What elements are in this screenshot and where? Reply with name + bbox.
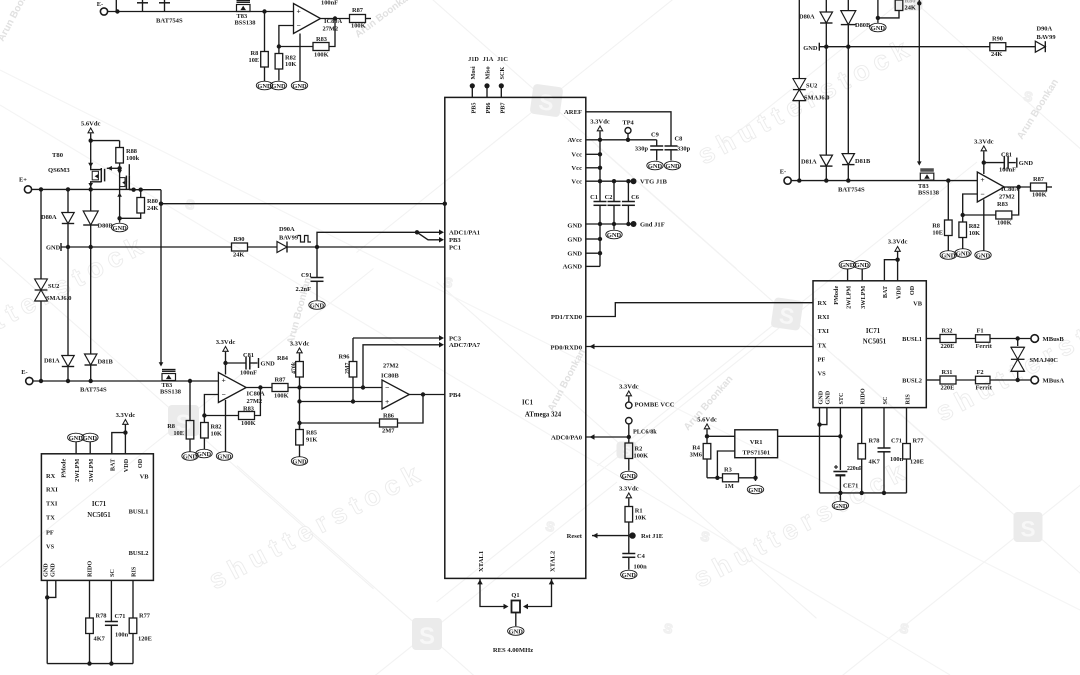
wire BUSL2 bbox=[926, 379, 940, 381]
svg-text:D80A: D80A bbox=[41, 214, 57, 221]
resistor R87 100K (top) bbox=[350, 7, 372, 30]
svg-text:GND: GND bbox=[665, 163, 680, 170]
wire sense rail GND to R90 bbox=[61, 245, 232, 249]
svg-text:D90A: D90A bbox=[1037, 26, 1053, 33]
svg-text:PMode: PMode bbox=[60, 459, 67, 478]
op-amp IC80A bbox=[218, 373, 246, 403]
svg-text:220E: 220E bbox=[941, 385, 955, 392]
svg-text:TXI: TXI bbox=[46, 501, 58, 508]
svg-text:STC: STC bbox=[838, 392, 845, 404]
svg-text:R8: R8 bbox=[251, 50, 259, 57]
pin label GND bottom (right NC5051) bbox=[817, 390, 824, 404]
svg-text:BAT754S: BAT754S bbox=[80, 387, 107, 394]
svg-text:TX: TX bbox=[46, 515, 55, 522]
node junction 5.6V to R88 bbox=[89, 138, 120, 142]
power 3.3Vdc for R84 bbox=[290, 341, 310, 362]
svg-text:T80: T80 bbox=[52, 152, 64, 159]
svg-text:Miso: Miso bbox=[485, 66, 492, 79]
wire RIDO drop bbox=[861, 408, 863, 444]
tvs SMAJ40C bbox=[1011, 339, 1058, 381]
wire feedback to VR1 bbox=[717, 451, 734, 478]
svg-text:GND: GND bbox=[42, 563, 49, 577]
svg-text:R32: R32 bbox=[942, 328, 953, 335]
wire ADC0/PA0 bbox=[586, 434, 631, 440]
svg-text:GND: GND bbox=[956, 250, 971, 257]
svg-text:IC80A: IC80A bbox=[324, 18, 342, 25]
wire inverting net (right) bbox=[961, 194, 996, 217]
svg-text:GND: GND bbox=[261, 361, 276, 368]
svg-text:AREF: AREF bbox=[564, 109, 582, 116]
svg-text:GND: GND bbox=[83, 435, 98, 442]
pin label Reset y=535.6 bbox=[567, 533, 583, 540]
capacitor CE71 220uF bbox=[833, 436, 863, 493]
svg-text:PB7: PB7 bbox=[499, 103, 506, 114]
svg-text:BAV99: BAV99 bbox=[1037, 34, 1056, 41]
svg-text:5.6Vdc: 5.6Vdc bbox=[81, 121, 101, 128]
ground under C9 bbox=[647, 161, 663, 170]
svg-text:BSS138: BSS138 bbox=[160, 389, 181, 396]
wire BAT bracket (right NC5051) bbox=[884, 260, 897, 281]
resistor R80 24K (right, cropped) bbox=[895, 0, 916, 12]
svg-text:VB: VB bbox=[913, 301, 923, 308]
connector POMBE VCC bbox=[626, 402, 675, 409]
svg-text:330p: 330p bbox=[635, 146, 649, 153]
diode D80A bbox=[41, 189, 74, 247]
wire T80b source to rail bbox=[129, 188, 161, 192]
svg-text:E-: E- bbox=[21, 369, 27, 376]
connector VTG J1B bbox=[631, 178, 668, 186]
diode D81A (cropped, cathode bar) bbox=[137, 0, 148, 12]
diode D80B bbox=[83, 189, 113, 247]
label 27M2 IC80B bbox=[381, 363, 399, 380]
svg-text:F2: F2 bbox=[977, 369, 984, 376]
diode D81B (right) bbox=[842, 47, 871, 181]
diode D81B (cropped, cathode bar) bbox=[159, 0, 170, 12]
svg-text:D81A: D81A bbox=[801, 159, 817, 166]
ground under R8 (right) bbox=[940, 251, 956, 260]
svg-text:C81: C81 bbox=[1001, 152, 1012, 159]
pin label PD0/RXD0 y=347 bbox=[550, 344, 582, 351]
svg-text:3.3Vdc: 3.3Vdc bbox=[590, 119, 610, 126]
svg-text:ADC1/PA1: ADC1/PA1 bbox=[449, 230, 480, 237]
pin label GND bottom (right NC5051) bbox=[825, 390, 832, 404]
svg-text:F1: F1 bbox=[977, 328, 984, 335]
svg-text:R87: R87 bbox=[352, 7, 364, 14]
svg-text:VS: VS bbox=[818, 371, 827, 378]
svg-text:100K: 100K bbox=[241, 420, 256, 427]
pin label GND bottom (left NC5051) bbox=[50, 563, 57, 577]
ground under R82 bbox=[196, 449, 212, 458]
svg-text:GND: GND bbox=[292, 458, 307, 465]
wire bottom rail (right NC5051) bbox=[820, 491, 907, 495]
pin label AGND y=266.4 bbox=[563, 264, 583, 271]
resistor R77 120E (right) bbox=[903, 438, 925, 493]
wire R83 to output bbox=[255, 385, 263, 415]
svg-text:OD: OD bbox=[909, 285, 916, 295]
svg-text:10E: 10E bbox=[173, 430, 184, 437]
svg-text:R31: R31 bbox=[942, 369, 953, 376]
wire BUSL1 bbox=[926, 338, 940, 340]
svg-text:QS6M3: QS6M3 bbox=[48, 167, 70, 174]
wire STC drop bbox=[839, 408, 841, 437]
label IC80A 27M2 R83 bbox=[243, 391, 265, 413]
svg-text:220E: 220E bbox=[941, 343, 955, 350]
ground under R8 (top) bbox=[256, 81, 272, 90]
svg-text:PD1/TXD0: PD1/TXD0 bbox=[551, 314, 583, 321]
svg-text:RES 4.00MHz: RES 4.00MHz bbox=[493, 647, 533, 654]
svg-text:SU2: SU2 bbox=[806, 83, 817, 90]
ground under R85 bbox=[291, 457, 307, 466]
svg-text:24K: 24K bbox=[905, 5, 916, 12]
pin label VB (left NC5051) bbox=[140, 474, 150, 481]
wire AVcc pin bbox=[586, 138, 657, 142]
resistor R82 10K bbox=[201, 416, 222, 450]
svg-text:VS: VS bbox=[46, 544, 55, 551]
pin label PC1 left y=247 bbox=[449, 244, 461, 251]
wire junction up to PA1/PB3 bracket bbox=[317, 230, 419, 247]
svg-text:100nF: 100nF bbox=[240, 370, 257, 377]
power 5.6Vdc (VR1) bbox=[697, 417, 717, 444]
svg-text:10K: 10K bbox=[285, 61, 296, 68]
terminal E- (top-left input) bbox=[97, 1, 108, 15]
svg-text:R78: R78 bbox=[869, 438, 880, 445]
label IC80A 27M2 R83 (right) bbox=[997, 186, 1019, 208]
svg-text:BUSL2: BUSL2 bbox=[129, 550, 149, 557]
svg-text:3.3Vdc: 3.3Vdc bbox=[216, 339, 236, 346]
power 3.3Vdc IC80A (right) bbox=[974, 139, 994, 175]
svg-text:BAT754S: BAT754S bbox=[156, 18, 183, 25]
node junction R84/R87 bbox=[297, 385, 301, 389]
svg-text:C91: C91 bbox=[301, 272, 312, 279]
svg-text:27M2: 27M2 bbox=[999, 194, 1015, 201]
svg-text:IC1: IC1 bbox=[522, 400, 534, 407]
svg-text:GND: GND bbox=[622, 572, 637, 579]
svg-text:10E: 10E bbox=[249, 57, 260, 64]
svg-text:PC1: PC1 bbox=[449, 244, 461, 251]
svg-text:+: + bbox=[385, 397, 389, 406]
transistor T83 (top, BSS138) bbox=[235, 1, 256, 27]
svg-text:100k: 100k bbox=[126, 155, 140, 162]
svg-text:SMAJ40C: SMAJ40C bbox=[1030, 357, 1059, 364]
op-amp V- ground (right) bbox=[983, 200, 985, 251]
svg-text:10K: 10K bbox=[969, 230, 980, 237]
op-amp V- to ground (top) bbox=[299, 34, 301, 82]
svg-text:E-: E- bbox=[97, 1, 103, 8]
svg-text:J1C: J1C bbox=[497, 56, 508, 63]
pin PB7 SCK J1C bbox=[497, 56, 508, 114]
svg-text:SC: SC bbox=[882, 397, 889, 405]
ground under R80/T80b bbox=[111, 223, 127, 232]
svg-text:100K: 100K bbox=[1032, 192, 1047, 199]
svg-text:GND: GND bbox=[257, 83, 272, 90]
svg-text:−: − bbox=[221, 390, 225, 399]
svg-text:GND: GND bbox=[183, 453, 198, 460]
wire E+ rail bbox=[32, 187, 131, 191]
svg-text:RXI: RXI bbox=[46, 487, 58, 494]
pin label XTAL1 bbox=[478, 551, 485, 572]
svg-text:GND: GND bbox=[217, 453, 232, 460]
svg-text:C81: C81 bbox=[243, 352, 254, 359]
svg-text:GND: GND bbox=[310, 302, 325, 309]
capacitor C71 100n (left) bbox=[105, 580, 129, 663]
svg-text:BUSL1: BUSL1 bbox=[902, 336, 922, 343]
svg-text:BSS138: BSS138 bbox=[918, 190, 939, 197]
svg-text:D81B: D81B bbox=[98, 359, 114, 366]
svg-text:RX: RX bbox=[818, 300, 828, 307]
wire long vertical to T83 drain bbox=[159, 190, 164, 367]
svg-text:VR1: VR1 bbox=[750, 439, 763, 446]
ground under Q1 bbox=[508, 613, 524, 636]
terminal MBusB bbox=[1031, 335, 1064, 343]
svg-text:PB3: PB3 bbox=[449, 237, 461, 244]
transistor T83 BSS138 (right) bbox=[918, 169, 939, 196]
svg-text:2WLPM: 2WLPM bbox=[74, 459, 81, 482]
svg-text:Vcc: Vcc bbox=[571, 152, 582, 159]
svg-text:R96: R96 bbox=[338, 354, 350, 361]
svg-text:GND: GND bbox=[271, 83, 286, 90]
pin label RXI (left NC5051) bbox=[46, 487, 58, 494]
svg-text:2M7: 2M7 bbox=[345, 362, 351, 374]
svg-text:Ferrit: Ferrit bbox=[976, 385, 993, 392]
pin label TXI (right NC5051) bbox=[818, 328, 830, 335]
capacitor C81 100nF bbox=[226, 352, 276, 377]
svg-text:−: − bbox=[980, 190, 984, 199]
tvs SU2 SMAJ6.0 bbox=[35, 189, 72, 381]
pin label BAT (right NC5051) bbox=[882, 285, 889, 298]
pin label VS (right NC5051) bbox=[818, 371, 827, 378]
svg-text:D80A: D80A bbox=[799, 14, 815, 21]
svg-text:CE71: CE71 bbox=[843, 483, 858, 490]
svg-text:XTAL2: XTAL2 bbox=[550, 550, 557, 572]
wire output to R87 (top) bbox=[321, 18, 350, 20]
pin label XTAL2 bbox=[550, 550, 557, 572]
resistor R82 10K (right) bbox=[959, 215, 980, 249]
svg-text:+: + bbox=[980, 175, 984, 184]
pin label PB4 left y=394.5 bbox=[449, 392, 461, 399]
node junction C81 tap bbox=[223, 361, 227, 365]
regulator VR1 TPS71501 bbox=[735, 430, 778, 458]
svg-text:C9: C9 bbox=[651, 132, 659, 139]
wire plus line bbox=[300, 399, 383, 403]
svg-text:2WLPM: 2WLPM bbox=[845, 286, 852, 309]
pin label VDD (left NC5051) bbox=[123, 458, 130, 472]
resistor R80 24K bbox=[137, 190, 158, 213]
ground under R82 (right) bbox=[955, 249, 971, 258]
pin label OD (right NC5051) bbox=[909, 285, 916, 295]
pin label VS (left NC5051) bbox=[46, 544, 55, 551]
wire VR1 output bbox=[778, 434, 843, 438]
svg-text:TP4: TP4 bbox=[622, 120, 634, 127]
ground under R82 (top) bbox=[270, 81, 286, 90]
svg-text:D90A: D90A bbox=[279, 226, 295, 233]
pin label Vcc y=181.2 bbox=[571, 179, 582, 186]
resistor R83 100K (right) bbox=[996, 211, 1012, 227]
resistor R96 2M7 bbox=[338, 338, 356, 402]
svg-text:RIDO: RIDO bbox=[87, 561, 94, 577]
wire XTAL1 to crystal bbox=[477, 578, 508, 609]
pin label RIS bottom (left NC5051) bbox=[131, 566, 138, 577]
pin label TXI (left NC5051) bbox=[46, 501, 58, 508]
wire R4 to R3 bbox=[707, 476, 723, 480]
resistor R78 4K7 (right) bbox=[858, 438, 881, 493]
svg-text:IC80B: IC80B bbox=[381, 373, 399, 380]
svg-text:C2: C2 bbox=[605, 194, 613, 201]
svg-text:100K: 100K bbox=[997, 220, 1012, 227]
ic IC71 NC5051 (left) body bbox=[41, 454, 153, 581]
pin label PF (left NC5051) bbox=[46, 530, 54, 537]
svg-text:R87: R87 bbox=[1033, 176, 1045, 183]
resistor R83 100K (top) bbox=[313, 43, 329, 59]
wire D90A to junction bbox=[287, 245, 319, 249]
svg-text:VB: VB bbox=[140, 474, 150, 481]
svg-text:ADC7/PA7: ADC7/PA7 bbox=[449, 342, 481, 349]
wire AREF to C8 bbox=[586, 112, 671, 146]
svg-text:GND: GND bbox=[509, 628, 524, 635]
svg-text:+: + bbox=[221, 376, 225, 385]
svg-text:5.6Vdc: 5.6Vdc bbox=[697, 417, 717, 424]
pin label VDD (right NC5051) bbox=[895, 285, 902, 299]
svg-text:120E: 120E bbox=[910, 459, 924, 466]
svg-text:100n: 100n bbox=[115, 632, 129, 639]
wire SC drop bbox=[883, 408, 885, 448]
power 3.3Vdc POMBE bbox=[619, 384, 639, 403]
svg-text:TX: TX bbox=[818, 343, 827, 350]
resistor R2 100K bbox=[625, 437, 648, 471]
svg-text:XTAL1: XTAL1 bbox=[478, 551, 485, 572]
ground under C91 bbox=[309, 301, 325, 310]
svg-text:R88: R88 bbox=[126, 148, 137, 155]
wire GND rail bbox=[586, 222, 634, 226]
svg-text:2.2nF: 2.2nF bbox=[296, 286, 312, 293]
svg-text:BAT754S: BAT754S bbox=[838, 187, 865, 194]
diode D90A BAV99 bbox=[277, 226, 298, 253]
ground under C4 bbox=[621, 570, 637, 579]
svg-text:100K: 100K bbox=[314, 52, 329, 59]
svg-text:R83: R83 bbox=[997, 201, 1008, 208]
svg-text:2M7: 2M7 bbox=[382, 428, 395, 435]
svg-text:R3: R3 bbox=[724, 467, 732, 474]
svg-text:GND: GND bbox=[567, 222, 582, 229]
wire R80 to ground (right) bbox=[876, 0, 899, 23]
svg-text:ADC0/PA0: ADC0/PA0 bbox=[551, 434, 583, 441]
pin label PF (right NC5051) bbox=[818, 357, 826, 364]
svg-text:R78: R78 bbox=[96, 613, 107, 620]
svg-text:GND: GND bbox=[622, 473, 637, 480]
power 3.3Vdc AVcc bbox=[590, 119, 610, 182]
op-amp IC80A (top) bbox=[294, 4, 321, 34]
resistor R31 220E bbox=[940, 369, 976, 392]
svg-text:RIS: RIS bbox=[904, 394, 911, 405]
svg-text:GND: GND bbox=[69, 435, 84, 442]
pin label BUSL2 (left NC5051) bbox=[129, 550, 149, 557]
node junction R8 drop (top) bbox=[262, 9, 266, 13]
pin label STC bottom (right NC5051) bbox=[838, 392, 845, 404]
pin label RIDO bottom (left NC5051) bbox=[87, 561, 94, 577]
svg-text:R83: R83 bbox=[316, 36, 327, 43]
svg-text:R86: R86 bbox=[383, 413, 395, 420]
resistor R90 24K (right) bbox=[990, 36, 1036, 59]
svg-text:R90: R90 bbox=[234, 236, 245, 243]
pin label 3WLPM (left NC5051) bbox=[88, 459, 95, 482]
pin label PMode (left NC5051) bbox=[60, 459, 67, 478]
capacitor C91 2.2nF bbox=[296, 247, 324, 300]
pin label 2WLPM (left NC5051) bbox=[74, 459, 81, 482]
resistor R77 120E (left) bbox=[129, 580, 152, 663]
svg-text:3.3Vdc: 3.3Vdc bbox=[619, 486, 639, 493]
resistor R87 100K (right) bbox=[1031, 176, 1053, 199]
svg-text:GND: GND bbox=[46, 245, 61, 252]
wire PD1/TXD0 to RX bbox=[586, 303, 813, 317]
svg-text:GND: GND bbox=[1019, 160, 1034, 167]
power 3.3Vdc (right NC5051) bbox=[888, 239, 908, 281]
capacitor C2 bbox=[605, 181, 621, 224]
svg-text:GND: GND bbox=[567, 251, 582, 258]
svg-text:TXI: TXI bbox=[818, 328, 830, 335]
svg-text:3WLPM: 3WLPM bbox=[88, 459, 95, 482]
pin label RX (right NC5051) bbox=[818, 300, 828, 307]
pin label PB3 left y=239.8 bbox=[449, 237, 461, 244]
svg-text:Vcc: Vcc bbox=[571, 165, 582, 172]
resistor R90 24K bbox=[232, 236, 278, 259]
svg-text:10K: 10K bbox=[635, 515, 646, 522]
svg-text:470k: 470k bbox=[292, 361, 298, 374]
svg-text:VDD: VDD bbox=[895, 285, 902, 299]
resistor R8 10E (right) bbox=[932, 181, 952, 251]
svg-text:24K: 24K bbox=[147, 205, 158, 212]
svg-text:R77: R77 bbox=[139, 613, 151, 620]
wire output to PB4 bbox=[409, 392, 445, 396]
svg-text:100nF: 100nF bbox=[321, 0, 338, 7]
wire output to R87 (right) bbox=[1004, 186, 1030, 188]
svg-text:BSS138: BSS138 bbox=[235, 20, 256, 27]
label BAT754S (top) bbox=[156, 18, 183, 25]
transistor T80b (QS6M3) bbox=[117, 164, 134, 218]
wire sense rail (right) bbox=[819, 45, 990, 49]
wire VR1 gnd pin bbox=[755, 458, 757, 481]
svg-text:24K: 24K bbox=[991, 51, 1002, 58]
svg-text:GND: GND bbox=[607, 232, 622, 239]
svg-text:PLC6/8k: PLC6/8k bbox=[633, 429, 657, 436]
pin label SC bottom (left NC5051) bbox=[109, 569, 116, 577]
svg-text:MBusA: MBusA bbox=[1043, 378, 1065, 385]
svg-text:R4: R4 bbox=[692, 445, 701, 452]
svg-text:RXI: RXI bbox=[818, 314, 830, 321]
svg-text:PF: PF bbox=[46, 530, 54, 537]
svg-text:AVcc: AVcc bbox=[567, 137, 582, 144]
svg-text:RIDO: RIDO bbox=[860, 388, 867, 404]
op-amp IC80B bbox=[382, 380, 409, 409]
pin label BUSL1 (right NC5051) bbox=[902, 336, 922, 343]
svg-text:RX: RX bbox=[46, 473, 56, 480]
svg-text:BAT: BAT bbox=[882, 285, 889, 298]
svg-text:100K: 100K bbox=[634, 453, 649, 460]
ground under R2 bbox=[621, 471, 637, 480]
wire BAT bracket (left NC5051) bbox=[112, 433, 126, 454]
ground op-amp (right) bbox=[975, 251, 991, 260]
wire long vertical to T83 (right) bbox=[917, 0, 922, 166]
ground pins top (right NC5051) bbox=[839, 260, 870, 280]
diode D81B bbox=[85, 247, 114, 381]
svg-text:GND: GND bbox=[976, 252, 991, 259]
capacitor C6 bbox=[622, 181, 640, 224]
svg-text:GND: GND bbox=[292, 83, 307, 90]
connector Rst J1E bbox=[629, 532, 663, 540]
diode D90A BAV99 (right) bbox=[1035, 26, 1055, 53]
wire main minus line bbox=[300, 385, 383, 389]
svg-text:R80: R80 bbox=[147, 198, 158, 205]
svg-text:GND: GND bbox=[112, 225, 127, 232]
svg-text:GND: GND bbox=[840, 262, 855, 269]
